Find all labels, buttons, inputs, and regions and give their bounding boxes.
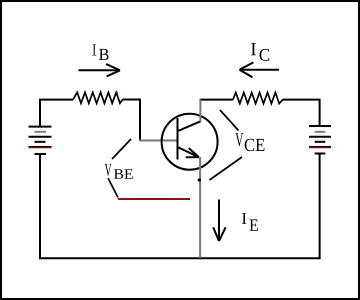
resistor R2 (collector resistor) — [233, 93, 283, 104]
resistor R1 (base resistor) — [73, 92, 123, 103]
wire emitter down (gray) — [199, 157, 201, 258]
red lead line from VBE pointer to emitter wire — [118, 198, 190, 200]
label VBE — [105, 164, 133, 179]
wire from resistor R2 to battery B2 — [283, 100, 320, 126]
label IC — [251, 43, 269, 61]
pointer line VBE to red lead — [108, 178, 118, 198]
arrow IE (emitter current, down) — [213, 200, 225, 242]
wire bottom rail — [39, 257, 321, 259]
junction dot on emitter wire — [198, 178, 201, 181]
wire collector (gray) — [199, 99, 201, 121]
transistor Q1 emitter arrowhead — [186, 148, 199, 157]
transistor Q1 body circle — [162, 114, 218, 170]
pointer line VBE to base wire — [112, 139, 131, 159]
wire battery B1 to bottom rail — [39, 155, 41, 259]
wire from resistor R1 to transistor base — [123, 100, 140, 141]
pointer line VCE to emitter wire — [210, 157, 243, 180]
transistor Q1 emitter line — [178, 147, 200, 157]
label VCE — [235, 133, 264, 151]
pointer line VCE from collector area — [220, 110, 239, 131]
wire base (gray) — [139, 140, 177, 142]
transistor Q1 collector line — [178, 121, 201, 131]
wire top rail to resistor R2 — [200, 99, 233, 101]
arrow IC (current into collector) — [240, 62, 280, 77]
battery B2 plates — [309, 126, 331, 154]
arrow IB (current into base) — [79, 64, 121, 76]
wire top-left from battery B1 to resistor R1 — [40, 100, 73, 127]
transistor Q1 base bar — [177, 118, 179, 160]
wire battery B2 to bottom rail — [319, 155, 321, 260]
red speck on resistor R1 peak — [116, 92, 118, 94]
battery B1 plates — [29, 127, 52, 154]
label IE — [242, 213, 258, 231]
label IB — [92, 44, 108, 60]
